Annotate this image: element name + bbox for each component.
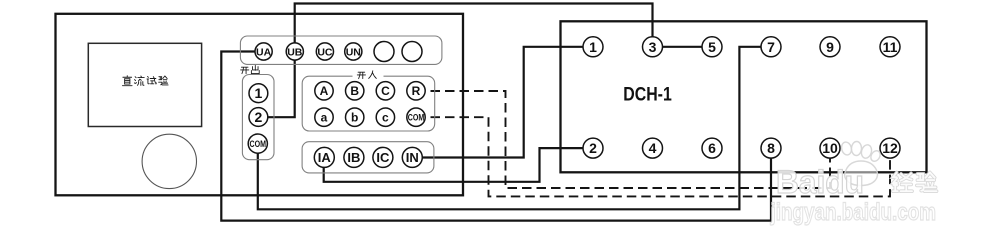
svg-text:IC: IC: [376, 150, 390, 165]
svg-text:IN: IN: [406, 150, 419, 165]
开入 label: [353, 71, 384, 81]
svg-text:1: 1: [589, 39, 597, 55]
svg-text:UC: UC: [317, 46, 333, 58]
开入 terminal R: [407, 82, 425, 100]
开出 label: [241, 65, 260, 73]
svg-text:R: R: [412, 84, 421, 98]
DCH-1 box: [561, 21, 927, 172]
text 直流试验: [122, 76, 168, 86]
开出 terminal 1: [249, 84, 268, 103]
开入 terminal COM: [407, 108, 425, 126]
dashed wire 开入COM to terminal 12: [416, 117, 890, 196]
watermark 经验: [893, 172, 937, 191]
knob circle: [142, 134, 196, 188]
svg-text:12: 12: [882, 140, 898, 156]
DCH terminal 9: [820, 37, 840, 57]
开入 terminal c: [376, 108, 394, 126]
left instrument box: [56, 14, 464, 196]
display box 直流试验: [88, 43, 201, 126]
terminal IN: [402, 147, 422, 167]
wire 开出COM to terminal 7: [258, 47, 771, 210]
DCH terminal 12: [880, 138, 900, 158]
terminal IC: [373, 147, 393, 167]
开入 terminal b: [346, 108, 364, 126]
开入 terminal C: [376, 82, 394, 100]
svg-text:jingyan.baidu.com: jingyan.baidu.com: [770, 199, 936, 226]
voltage terminal rounded rect: [240, 36, 442, 64]
DCH terminal 1: [583, 37, 603, 57]
wire UA to terminal 8 (left, down, across bottom, up): [221, 52, 771, 221]
svg-text:A: A: [320, 84, 329, 98]
开入 terminal A: [315, 82, 333, 100]
terminal UN: [345, 43, 362, 60]
terminal IA: [314, 147, 334, 167]
svg-text:COM: COM: [408, 113, 425, 124]
svg-text:c: c: [382, 111, 389, 125]
terminal UB: [286, 43, 303, 60]
svg-text:10: 10: [822, 140, 838, 156]
DCH terminal 7: [761, 37, 781, 57]
DCH terminal 5: [702, 37, 722, 57]
svg-text:4: 4: [649, 140, 657, 156]
terminal UA: [255, 43, 272, 60]
current terminal rounded rect: [302, 142, 434, 173]
DCH terminal 6: [702, 138, 722, 158]
svg-text:UN: UN: [346, 46, 361, 58]
wire terminal 3 to terminal 5: [653, 46, 713, 48]
开出 terminal 2: [249, 108, 268, 127]
svg-text:8: 8: [767, 140, 775, 156]
svg-text:6: 6: [708, 140, 716, 156]
svg-text:UA: UA: [256, 46, 272, 58]
svg-text:B: B: [350, 84, 359, 98]
svg-text:1: 1: [255, 85, 263, 101]
svg-text:5: 5: [708, 39, 716, 55]
开入 terminal a: [315, 108, 333, 126]
svg-text:2: 2: [255, 109, 263, 125]
blank terminal 2: [402, 42, 422, 62]
wire terminal 1 to IN: [412, 47, 593, 158]
DCH terminal 11: [880, 37, 900, 57]
svg-text:Baidu: Baidu: [776, 164, 864, 200]
svg-text:9: 9: [826, 39, 834, 55]
svg-text:COM: COM: [250, 139, 267, 150]
svg-text:11: 11: [883, 39, 898, 55]
svg-text:a: a: [321, 111, 328, 125]
开出 rounded rect: [242, 75, 274, 160]
wire 开出2 to UB and UB up over top to terminal 3: [266, 4, 653, 118]
DCH terminal 8: [761, 138, 781, 158]
svg-text:b: b: [351, 111, 358, 125]
svg-text:IB: IB: [347, 150, 360, 165]
DCH terminal 3: [643, 37, 663, 57]
开出 terminal COM: [248, 134, 267, 153]
blank terminal 1: [374, 42, 394, 62]
svg-text:IA: IA: [318, 150, 332, 165]
watermark paw print: [840, 141, 882, 185]
svg-text:UB: UB: [287, 46, 303, 58]
开入 rounded rect: [302, 76, 435, 131]
DCH terminal 4: [643, 138, 663, 158]
watermark Baidu: [776, 164, 864, 200]
DCH terminal 2: [583, 138, 603, 158]
svg-text:2: 2: [589, 140, 597, 156]
开入 terminal B: [346, 82, 364, 100]
dashed wire R to terminal 10: [416, 91, 830, 188]
DCH terminal 10: [820, 138, 840, 158]
terminal IB: [344, 147, 364, 167]
svg-text:3: 3: [649, 39, 657, 55]
svg-text:DCH-1: DCH-1: [623, 85, 672, 106]
wire terminal 2 to IA: [324, 148, 593, 182]
terminal UC: [316, 43, 333, 60]
svg-text:7: 7: [767, 39, 775, 55]
svg-text:C: C: [381, 84, 390, 98]
